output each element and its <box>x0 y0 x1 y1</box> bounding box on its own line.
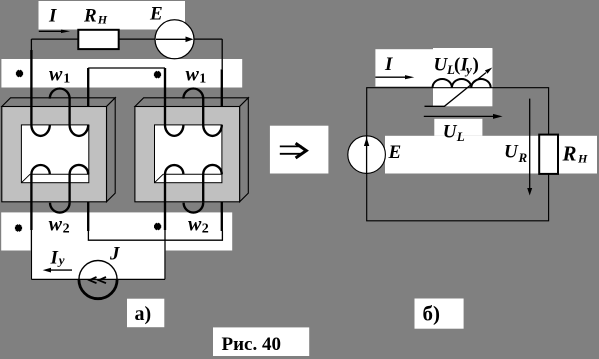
svg-text:а): а) <box>135 303 152 325</box>
svg-text:I: I <box>384 54 393 75</box>
svg-text:2: 2 <box>202 222 209 237</box>
svg-text:L: L <box>456 129 465 144</box>
svg-text:U: U <box>443 122 458 143</box>
svg-text:R: R <box>518 150 528 165</box>
svg-text:U: U <box>504 142 519 163</box>
svg-text:1: 1 <box>199 72 206 87</box>
svg-text:w: w <box>188 214 202 236</box>
svg-text:Рис. 40: Рис. 40 <box>222 334 282 355</box>
svg-text:I: I <box>48 6 57 27</box>
svg-text:H: H <box>577 152 588 166</box>
svg-text:w: w <box>186 64 200 86</box>
svg-text:R: R <box>562 142 577 166</box>
svg-text:б): б) <box>423 302 441 326</box>
svg-text:R: R <box>83 6 97 27</box>
svg-text:H: H <box>97 13 108 27</box>
svg-text:I: I <box>50 248 59 269</box>
svg-text:y: y <box>464 62 472 77</box>
svg-text:1: 1 <box>63 72 70 87</box>
svg-text:2: 2 <box>63 222 70 237</box>
svg-text:J: J <box>109 244 120 265</box>
svg-text:y: y <box>57 253 65 268</box>
svg-text:(: ( <box>454 55 460 76</box>
svg-text:w: w <box>49 214 63 236</box>
svg-text:E: E <box>388 142 402 163</box>
svg-text:w: w <box>49 64 63 86</box>
svg-text:): ) <box>473 55 479 76</box>
svg-text:E: E <box>149 4 163 25</box>
